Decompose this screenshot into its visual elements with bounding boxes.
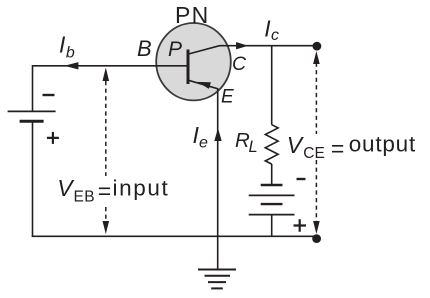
svg-text:input: input (113, 175, 170, 200)
svg-text:e: e (199, 135, 208, 152)
svg-text:b: b (66, 45, 75, 62)
svg-text:V: V (57, 175, 75, 201)
svg-text:PN: PN (175, 2, 210, 28)
svg-text:=: = (331, 136, 344, 162)
svg-text:P: P (168, 38, 182, 61)
svg-text:EB: EB (74, 189, 95, 206)
svg-text:E: E (221, 87, 234, 108)
svg-text:=: = (98, 178, 111, 204)
svg-text:C: C (232, 53, 247, 75)
svg-text:output: output (349, 131, 416, 156)
svg-text:B: B (137, 36, 152, 61)
svg-text:V: V (287, 132, 305, 158)
svg-text:L: L (249, 138, 258, 156)
svg-text:CE: CE (303, 145, 325, 162)
svg-text:c: c (271, 27, 279, 44)
